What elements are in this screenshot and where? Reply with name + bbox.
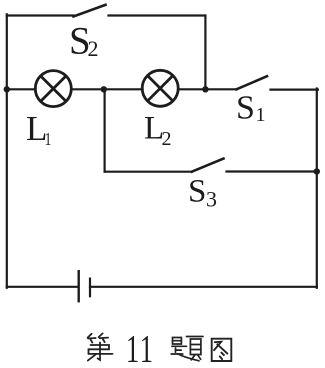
caption character 图 [212,339,232,361]
node A junction dot [101,86,107,92]
label L1 [26,109,51,150]
wire main left segment [7,88,36,90]
wire top-right segment [109,14,206,16]
caption character 题 [171,337,203,361]
switch S1 blade [237,76,268,89]
svg-text:1: 1 [256,104,266,126]
wire drop from top wire to node B [204,16,206,90]
label S1 [236,90,266,127]
wire branch right segment [227,170,317,172]
wire branch left segment [105,171,192,173]
wire between L1 and node A [72,88,143,90]
wire branch drop from node A [103,89,105,171]
label S3 [188,174,217,212]
label S2 [69,19,99,62]
wire S1 to right rail [271,88,318,90]
node junction dot right rail [314,168,320,174]
wire top-left segment [7,14,74,16]
lamp L2 [142,70,178,106]
svg-text:S: S [236,90,255,127]
switch S3 blade [192,159,224,172]
svg-text:1: 1 [45,130,52,149]
label L2 [144,110,172,150]
svg-text:1: 1 [140,328,153,368]
wire between L2 and switch S1 [179,88,237,90]
wire bottom-left segment [7,286,78,288]
svg-text:1: 1 [126,328,139,368]
svg-text:2: 2 [162,128,172,150]
svg-text:3: 3 [206,187,217,212]
wire left rail [6,14,8,287]
wire right rail [316,89,318,288]
svg-text:2: 2 [88,36,99,61]
battery positive plate [77,271,79,301]
node junction dot left rail [4,86,10,92]
wire bottom-right segment [90,286,317,288]
caption character 第 [88,333,113,360]
node B junction dot [202,86,208,92]
lamp L1 [35,71,71,107]
svg-text:S: S [188,174,206,210]
switch S2 blade [74,5,106,17]
caption number 11 [126,328,153,368]
battery negative plate [89,279,91,297]
